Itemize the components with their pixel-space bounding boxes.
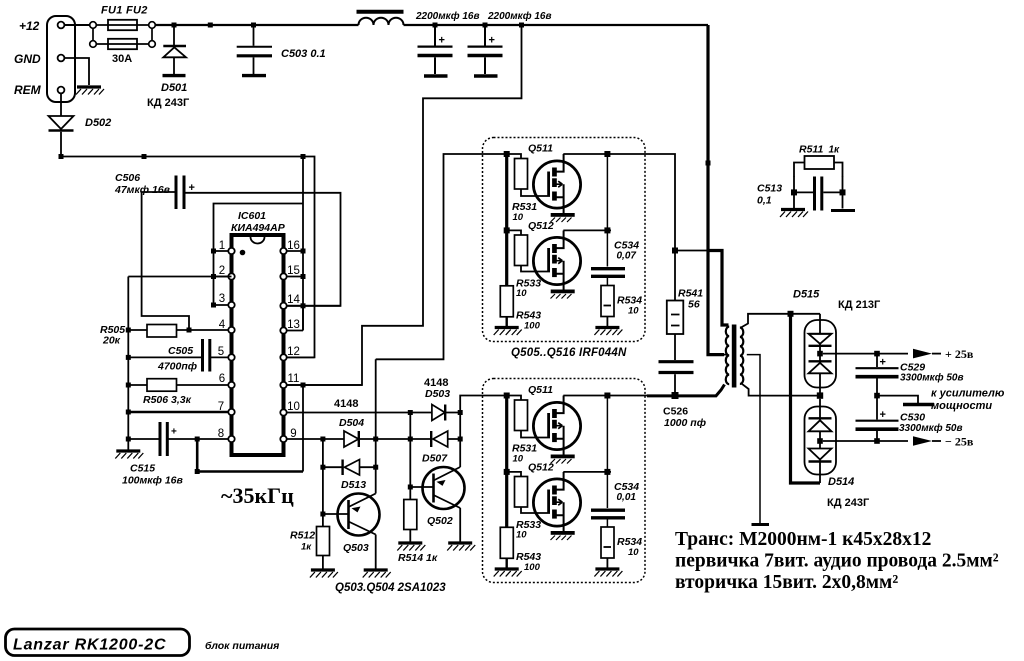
node pin16 on bus [301, 249, 306, 254]
svg-text:1к: 1к [829, 145, 841, 156]
IC pin circles left 1-8 [228, 248, 234, 442]
wire primary center tap [723, 354, 725, 356]
capacitor C2200-2 (2200mkf 16v) [468, 23, 503, 77]
svg-text:Q511: Q511 [528, 384, 553, 396]
svg-text:REM: REM [14, 83, 42, 97]
capacitor C530 3300mkf 50v [856, 396, 899, 441]
ground bar secondary CT [752, 523, 770, 526]
svg-text:30A: 30A [112, 53, 132, 65]
wire pin2 to left bus [128, 276, 231, 278]
gate bus box2 [505, 396, 508, 528]
resistor R531 (box1) [507, 154, 550, 196]
svg-text:20к: 20к [102, 335, 121, 347]
resistor R506 3.3k [128, 379, 176, 392]
title box Lanzar RK1200-2C [6, 629, 190, 656]
node pin3 [211, 303, 216, 308]
capacitor C534 (box2) [591, 396, 625, 528]
svg-text:100: 100 [524, 321, 541, 332]
node D503 cathode [458, 410, 463, 415]
wire drain line box1 [563, 154, 675, 248]
node D503 anode [408, 410, 413, 415]
wire REM control line [61, 157, 315, 358]
diode D502 [49, 93, 74, 156]
node C526 bottom on drain line [672, 392, 679, 399]
diode D504 [344, 431, 359, 447]
svg-text:10: 10 [628, 306, 639, 317]
capacitor C505 4700pf [128, 339, 210, 372]
resistor R512 1k [317, 527, 330, 569]
svg-text:3300мкф 50в: 3300мкф 50в [900, 372, 964, 384]
node Q502 base junction [408, 485, 413, 490]
wire +25v output line [823, 353, 908, 355]
svg-text:D503: D503 [425, 388, 450, 400]
svg-text:0,07: 0,07 [617, 251, 637, 262]
IC pin stubs left [169, 251, 229, 439]
svg-text:R506 3,3к: R506 3,3к [143, 394, 192, 406]
svg-text:16: 16 [287, 240, 300, 252]
node gate bus top box2 [504, 393, 510, 399]
svg-text:+: + [880, 357, 886, 369]
svg-text:к усилителю: к усилителю [931, 388, 1005, 400]
ground below R511 left [780, 210, 808, 218]
IC pin circles right 16-9 [280, 248, 286, 442]
capacitor C2200-1 (2200mkf 16v) [418, 23, 453, 77]
node secondary top branch [788, 311, 794, 317]
capacitor C515 100mkf 16v [128, 422, 177, 456]
node under IC [195, 469, 200, 474]
wire C506 right to pin14 [186, 193, 341, 306]
svg-text:10: 10 [516, 530, 527, 541]
node rail to pin11 branch [519, 23, 524, 28]
node D514 mid tap [817, 438, 823, 444]
node bus pin8 [126, 437, 131, 442]
resistor R534 (box1) [601, 286, 614, 327]
transformer T1 primary winding [726, 327, 729, 385]
node Q503 base junction [320, 512, 325, 517]
wire left bus vertical [127, 277, 129, 451]
svg-text:Q512: Q512 [528, 220, 554, 232]
svg-text:7: 7 [218, 401, 224, 413]
IC pin numbers left [218, 240, 226, 440]
wire drain line box2 [563, 395, 675, 397]
diode D507 [431, 431, 448, 447]
ground bar output common [903, 403, 934, 406]
resistor R531 (box2) [507, 396, 550, 438]
wire -25v output line [823, 440, 908, 442]
IC U601 KIA494AP outline box [214, 157, 304, 472]
ground below R534 (box1) [594, 328, 622, 336]
wire drain line to primary bottom [675, 385, 725, 396]
wire main +12 rail [155, 24, 708, 26]
node D515/D514 junction [817, 392, 823, 398]
diode D503 [432, 405, 445, 421]
svg-text:2200мкф 16в: 2200мкф 16в [415, 10, 480, 22]
wire pin7 to bus (thick) [128, 411, 228, 413]
wire snubber node to +12 vertical [675, 250, 708, 252]
svg-text:Q511: Q511 [528, 143, 553, 155]
node pin9 line at R512 bus [320, 437, 325, 442]
svg-text:10: 10 [628, 547, 639, 558]
node gate bus top box1 [504, 151, 510, 157]
wire Q503 emitter up to D504 node [375, 439, 377, 494]
svg-text:D513: D513 [341, 479, 366, 491]
wire +12 main vertical to transformer [708, 25, 724, 355]
svg-text:10: 10 [513, 212, 524, 223]
capacitor C526 1000pf [659, 334, 694, 396]
svg-text:56: 56 [688, 299, 700, 311]
wire elbow to primary top [708, 251, 729, 326]
svg-text:15: 15 [287, 265, 300, 277]
node pin11 on bus [301, 383, 306, 388]
gate bus box1 [505, 154, 508, 286]
svg-text:+12: +12 [19, 19, 40, 33]
svg-text:1000 пф: 1000 пф [664, 417, 706, 429]
node C530 bottom [874, 438, 880, 444]
resistor R543 (box1) [500, 286, 513, 326]
svg-text:0,01: 0,01 [617, 492, 637, 503]
svg-text:КД 213Г: КД 213Г [838, 299, 881, 311]
node D504 cathode [373, 437, 378, 442]
svg-text:~35кГц: ~35кГц [221, 483, 294, 508]
node gate bus mid box2 [504, 469, 510, 475]
svg-text:блок питания: блок питания [205, 640, 279, 652]
node pin14 on bus [301, 303, 306, 308]
node dot on rail [251, 23, 256, 28]
node drain2/C534 box1 [604, 227, 610, 233]
node D515 mid tap [817, 351, 823, 357]
svg-text:D502: D502 [85, 117, 111, 129]
wire pin13 to pin14 node [302, 306, 304, 331]
wire drain2 box1 [563, 229, 611, 231]
wire rail branch down to pin 11 route [287, 25, 522, 385]
svg-text:GND: GND [14, 52, 41, 66]
svg-text:D504: D504 [339, 417, 364, 429]
svg-text:C513: C513 [757, 183, 782, 195]
svg-text:3300мкф 50в: 3300мкф 50в [899, 422, 963, 434]
svg-text:+ 25в: + 25в [945, 347, 974, 361]
transistor Q512 (box2) [533, 472, 580, 540]
node C513 right [840, 189, 846, 195]
dual diode D515 KD213G [805, 314, 837, 396]
svg-text:100: 100 [524, 562, 541, 573]
svg-text:Q502: Q502 [427, 515, 453, 527]
svg-text:5: 5 [218, 346, 224, 358]
resistor R533 (box1) [507, 230, 550, 271]
node pin15 on bus [301, 274, 306, 279]
transistor Q511 (box1) [533, 154, 580, 222]
node D513 left [320, 465, 325, 470]
node gate bus mid box1 [504, 227, 510, 233]
node output common [874, 393, 880, 399]
svg-text:КД 243Г: КД 243Г [147, 97, 190, 109]
transistor Q503 2SA1023 [323, 494, 380, 569]
svg-text:4: 4 [219, 319, 226, 331]
arrow -25v [913, 436, 932, 446]
node C513 left [791, 189, 797, 195]
resistor R505 20k [128, 325, 176, 338]
svg-text:0,1: 0,1 [757, 195, 772, 207]
inductor L1 with core [357, 12, 404, 25]
ground bar right of C513 [831, 209, 855, 212]
resistor R541 56 [667, 251, 684, 335]
wire D513 branch line [323, 466, 376, 468]
wire Q502 emitter up / lower gate feed [460, 396, 507, 468]
svg-text:11: 11 [288, 373, 300, 385]
wire output common to ground bar [877, 396, 918, 403]
node C529 top [874, 351, 880, 357]
node drain/C534 top box1 [604, 151, 610, 157]
svg-text:первичка 7вит. аудио провод: первичка 7вит. аудио провода 2.5мм² [675, 551, 999, 572]
resistor R514 1k [404, 500, 417, 542]
svg-text:10: 10 [513, 454, 524, 465]
node D513 right [373, 465, 378, 470]
node drain/C534 top box2 [604, 393, 610, 399]
svg-text:FU1 FU2: FU1 FU2 [101, 5, 148, 17]
svg-text:4700пф: 4700пф [157, 361, 197, 373]
svg-text:14: 14 [287, 294, 300, 306]
svg-text:8: 8 [218, 428, 224, 440]
svg-text:D501: D501 [161, 82, 187, 94]
capacitor C506 47mkf 16v [176, 176, 195, 210]
svg-text:+: + [439, 35, 445, 47]
capacitor C513 0,1 [794, 176, 843, 211]
diode D501 [163, 25, 187, 76]
IC pin stubs right [287, 251, 461, 439]
node bus pin6 [126, 383, 131, 388]
svg-text:Q512: Q512 [528, 462, 554, 474]
ground below R543 (box2) [494, 569, 522, 577]
capacitor C503 [237, 25, 272, 76]
FET bank box 2 (dashed) [483, 379, 646, 583]
wire secondary top lead [741, 314, 820, 328]
transistor Q502 2SA1023 [410, 467, 464, 542]
wire secondary center tap to ground [747, 355, 760, 524]
ground at GND pin [76, 87, 104, 95]
svg-text:С530: С530 [900, 412, 925, 424]
svg-text:10: 10 [516, 288, 527, 299]
node bus pin7 [126, 410, 131, 415]
svg-text:Q505..Q516 IRF044N: Q505..Q516 IRF044N [511, 347, 627, 359]
node REM line at IC bus [301, 154, 306, 159]
node pin1 [211, 249, 216, 254]
svg-text:КД 243Г: КД 243Г [827, 497, 870, 509]
svg-text:2200мкф 16в: 2200мкф 16в [487, 10, 552, 22]
svg-text:IC601: IC601 [238, 210, 266, 222]
svg-text:мощности: мощности [931, 400, 992, 412]
svg-text:R514 1к: R514 1к [398, 552, 438, 564]
svg-text:+: + [171, 427, 177, 438]
transformer T1 secondary winding [740, 328, 743, 384]
svg-text:1: 1 [219, 240, 225, 252]
ground at left bus bottom [115, 451, 143, 459]
wire R512 bus vertical [322, 439, 324, 527]
svg-text:Q503.Q504 2SA1023: Q503.Q504 2SA1023 [335, 582, 446, 594]
dual diode D514 KD243G [805, 399, 837, 483]
node dot on rail [208, 23, 213, 28]
svg-text:C503 0.1: C503 0.1 [281, 48, 326, 60]
svg-text:9: 9 [290, 428, 296, 440]
fuse FU1 FU2 30A [90, 20, 156, 49]
node pin4 C506 junction [187, 328, 192, 333]
wire Q502 base bus vertical [409, 413, 411, 500]
svg-text:D515: D515 [793, 289, 820, 301]
svg-text:+: + [489, 35, 495, 47]
svg-text:С505: С505 [168, 345, 193, 357]
node dot on rail [172, 23, 177, 28]
wire +12 pin to fuse [64, 24, 89, 26]
svg-text:12: 12 [287, 346, 300, 358]
wire vertical D504 node to gate feed corner [375, 359, 377, 439]
node D507 anode [458, 437, 463, 442]
resistor R534 (box2) [601, 527, 614, 568]
diode D513 [343, 460, 360, 476]
svg-text:− 25в: − 25в [945, 435, 974, 449]
capacitor C534 (box1) [591, 154, 625, 286]
svg-text:вторичка 15вит. 2х0,8мм²: вторичка 15вит. 2х0,8мм² [675, 572, 898, 593]
resistor R533 (box2) [507, 472, 550, 513]
svg-text:R511: R511 [799, 144, 823, 156]
ground below R512 [310, 570, 338, 578]
arrow +25v [913, 349, 932, 359]
svg-text:4148: 4148 [334, 398, 358, 410]
connector J1 (+12/GND/REM) [47, 16, 75, 102]
node bus pin4 [126, 328, 131, 333]
wire C506 left to pin4 node [142, 192, 189, 328]
wire GND pin to ground [64, 58, 89, 85]
capacitor C529 3300mkf 50v [856, 354, 899, 396]
svg-text:C526: C526 [663, 406, 688, 418]
svg-text:13: 13 [287, 319, 300, 331]
transformer T1 core [732, 325, 737, 388]
node D507 cathode [408, 437, 413, 442]
node drain2/C534 box2 [604, 469, 610, 475]
node R541 top / primary snubber [672, 248, 678, 254]
IC pin numbers right [287, 240, 300, 440]
svg-text:C506: C506 [115, 172, 140, 184]
ground below Q503 [363, 570, 391, 578]
svg-text:КИА494АР: КИА494АР [231, 222, 286, 234]
svg-text:1к: 1к [301, 542, 312, 553]
resistor R511 1k [794, 156, 843, 177]
node REM line mid [142, 154, 147, 159]
ground below Q502 [447, 543, 475, 551]
node pin8 C515 junction [195, 437, 200, 442]
svg-text:3: 3 [219, 293, 225, 305]
svg-text:Lanzar RK1200-2C: Lanzar RK1200-2C [13, 637, 166, 654]
wire drain2 box2 [563, 471, 611, 473]
svg-text:+: + [880, 409, 886, 421]
transistor Q511 (box2) [533, 396, 580, 464]
wire pin8 node under IC to right bus [197, 439, 303, 472]
svg-text:10: 10 [287, 401, 300, 413]
ground below R514 [397, 543, 425, 551]
svg-text:2: 2 [219, 265, 225, 277]
IC601 DIP body [232, 235, 284, 455]
resistor R543 (box2) [500, 527, 513, 567]
node REM line left [59, 154, 64, 159]
node bus pin5 [126, 355, 131, 360]
svg-text:D514: D514 [828, 476, 854, 488]
FET bank box 1 (dashed) [483, 138, 646, 342]
transistor Q512 (box1) [533, 231, 580, 299]
svg-text:6: 6 [219, 373, 225, 385]
ground below R543 (box1) [494, 328, 522, 336]
svg-text:Q503: Q503 [343, 542, 369, 554]
wire secondary bottom lead [741, 383, 817, 395]
wire secondary top to D514 bottom [791, 314, 821, 483]
wire top gate feed from D504 node [376, 154, 507, 359]
svg-text:C515: C515 [130, 463, 155, 475]
node nub on +12 vertical [706, 161, 711, 166]
svg-text:D507: D507 [422, 453, 448, 465]
ground below R534 (box2) [594, 569, 622, 577]
svg-text:R512: R512 [290, 530, 315, 542]
svg-text:Транс: М2000нм-1 к45х28х12: Транс: М2000нм-1 к45х28х12 [675, 529, 931, 550]
svg-text:100мкф 16в: 100мкф 16в [122, 475, 183, 487]
node pin2 [211, 274, 216, 279]
